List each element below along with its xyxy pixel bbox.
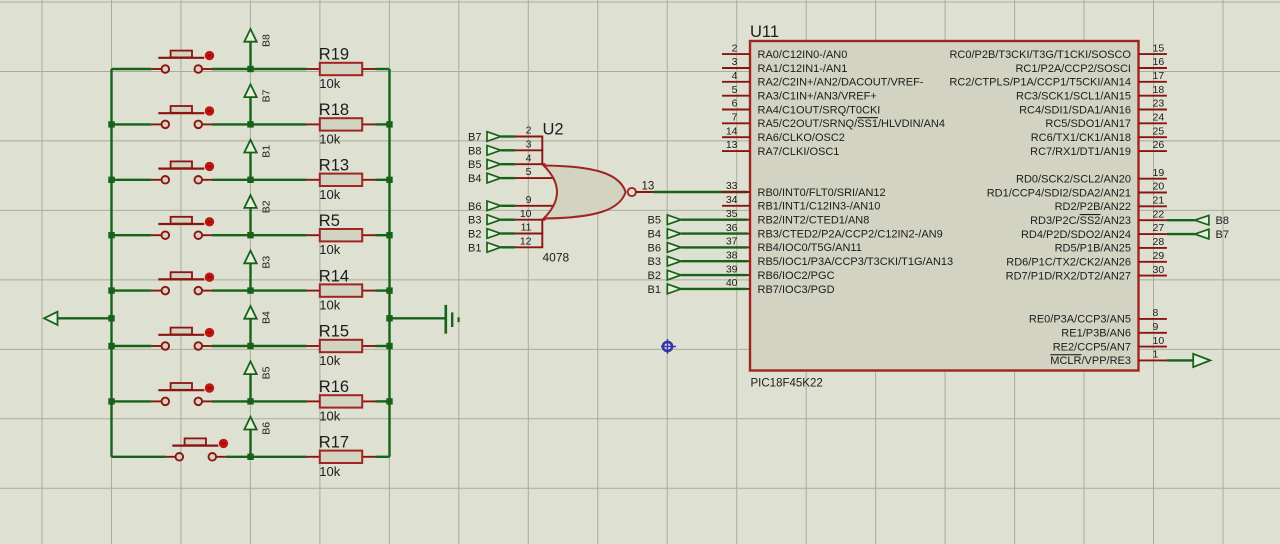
svg-text:RD3/P2C/SS2/AN23: RD3/P2C/SS2/AN23 bbox=[1030, 215, 1131, 227]
net label arrow B6 bbox=[244, 417, 272, 457]
wire B2 to U11 bbox=[681, 274, 747, 276]
wire to U2 pin 9 bbox=[501, 205, 515, 207]
svg-text:17: 17 bbox=[1153, 70, 1165, 82]
junction right bus row 6 bbox=[386, 343, 392, 349]
junction row 2 net stem bbox=[247, 121, 253, 127]
svg-text:33: 33 bbox=[726, 180, 738, 192]
svg-text:RB2/INT2/CTED1/AN8: RB2/INT2/CTED1/AN8 bbox=[758, 215, 870, 227]
svg-text:18: 18 bbox=[1153, 84, 1165, 96]
wire row 5 right segment bbox=[376, 289, 390, 291]
U11 pin 37 (left) bbox=[722, 236, 862, 255]
svg-text:1: 1 bbox=[1153, 349, 1159, 361]
svg-text:R18: R18 bbox=[319, 101, 349, 119]
wire row 8 left segment bbox=[112, 456, 166, 458]
button SW row 8 terminals bbox=[176, 453, 184, 461]
U11 pin 19 (right) bbox=[1016, 167, 1167, 186]
U11 pin 27 (right) bbox=[1021, 222, 1167, 241]
svg-text:B3: B3 bbox=[648, 256, 661, 268]
svg-text:10: 10 bbox=[1153, 335, 1165, 347]
button SW row 6 terminals bbox=[162, 342, 170, 350]
svg-text:2: 2 bbox=[732, 42, 738, 54]
wire row 3 left segment bbox=[112, 179, 152, 181]
U11 pin 8 (right) bbox=[1029, 307, 1167, 326]
svg-text:RA2/C2IN+/AN2/DACOUT/VREF-: RA2/C2IN+/AN2/DACOUT/VREF- bbox=[758, 77, 924, 89]
U2 pin 3 bbox=[515, 149, 543, 151]
svg-text:RD5/P1B/AN25: RD5/P1B/AN25 bbox=[1055, 243, 1131, 255]
svg-text:16: 16 bbox=[1153, 56, 1165, 68]
net label arrow B5 (to U11) bbox=[648, 215, 681, 227]
wire right bus vertical bbox=[388, 69, 390, 457]
svg-text:R16: R16 bbox=[319, 378, 349, 396]
button SW row 7 (pins) bbox=[152, 400, 162, 402]
svg-text:RB4/IOC0/T5G/AN11: RB4/IOC0/T5G/AN11 bbox=[758, 242, 862, 254]
svg-text:B4: B4 bbox=[468, 173, 481, 185]
wire row 6 left segment bbox=[112, 345, 152, 347]
button SW row 8 (pins) bbox=[166, 456, 176, 458]
button SW row 4 (pins) bbox=[152, 234, 162, 236]
button SW row 8 interactive red dot bbox=[219, 439, 228, 448]
junction row 6 net stem bbox=[247, 343, 253, 349]
svg-text:22: 22 bbox=[1153, 208, 1165, 220]
button SW row 4 terminals bbox=[162, 231, 170, 239]
button SW row 2 interactive red dot bbox=[205, 106, 214, 115]
svg-text:RD6/P1C/TX2/CK2/AN26: RD6/P1C/TX2/CK2/AN26 bbox=[1006, 257, 1131, 269]
svg-text:B3: B3 bbox=[261, 256, 273, 269]
net label arrow B7 (from U11) bbox=[1195, 229, 1229, 241]
button SW row 6 interactive red dot bbox=[205, 328, 214, 337]
terminal output arrow (MCLR) bbox=[1193, 354, 1210, 367]
svg-text:9: 9 bbox=[526, 194, 532, 206]
U11 pin 21 (right) bbox=[1055, 195, 1167, 214]
U11 pin 4 (left) bbox=[722, 70, 924, 89]
wire B4 to U11 bbox=[681, 232, 747, 234]
svg-text:28: 28 bbox=[1153, 236, 1165, 248]
svg-text:RC0/P2B/T3CKI/T3G/T1CKI/SOSCO: RC0/P2B/T3CKI/T3G/T1CKI/SOSCO bbox=[949, 49, 1131, 61]
junction row 1 net stem bbox=[247, 66, 253, 72]
junction left bus / arrow wire bbox=[108, 315, 114, 321]
svg-text:3: 3 bbox=[526, 139, 532, 151]
svg-text:37: 37 bbox=[726, 236, 738, 248]
junction right bus row 4 bbox=[386, 232, 392, 238]
wire row 1 right segment bbox=[376, 68, 390, 70]
U11 pin 14 (left) bbox=[722, 125, 845, 144]
resistor R18 bbox=[307, 101, 376, 146]
button SW row 1 actuator bbox=[158, 57, 204, 59]
U11 pin 30 (right) bbox=[1006, 264, 1167, 283]
svg-text:RC5/SDO1/AN17: RC5/SDO1/AN17 bbox=[1045, 118, 1131, 130]
svg-text:13: 13 bbox=[642, 180, 655, 192]
svg-text:RE1/P3B/AN6: RE1/P3B/AN6 bbox=[1061, 328, 1131, 340]
junction row 4 net stem bbox=[247, 232, 253, 238]
junction left bus row 2 bbox=[108, 121, 114, 127]
junction right bus row 2 bbox=[386, 121, 392, 127]
svg-text:RB1/INT1/C12IN3-/AN10: RB1/INT1/C12IN3-/AN10 bbox=[758, 201, 881, 213]
svg-text:RD0/SCK2/SCL2/AN20: RD0/SCK2/SCL2/AN20 bbox=[1016, 174, 1131, 186]
svg-text:10k: 10k bbox=[319, 464, 340, 479]
resistor R13 bbox=[307, 157, 376, 202]
net label arrow B2 bbox=[244, 195, 272, 235]
svg-text:RA7/CLKI/OSC1: RA7/CLKI/OSC1 bbox=[758, 146, 840, 158]
svg-text:7: 7 bbox=[732, 112, 738, 124]
svg-text:B2: B2 bbox=[468, 229, 481, 241]
wire row 4 middle segment bbox=[212, 234, 307, 236]
wire U11 to B8 bbox=[1167, 219, 1195, 221]
svg-text:4078: 4078 bbox=[543, 251, 570, 265]
svg-text:14: 14 bbox=[726, 125, 738, 137]
svg-text:39: 39 bbox=[726, 263, 738, 275]
svg-text:RC4/SDI1/SDA1/AN16: RC4/SDI1/SDA1/AN16 bbox=[1019, 104, 1131, 116]
wire row 3 right segment bbox=[376, 179, 390, 181]
svg-text:19: 19 bbox=[1153, 167, 1165, 179]
net label arrow B8 (U2 pin 3 input) bbox=[468, 145, 501, 157]
svg-text:RE0/P3A/CCP3/AN5: RE0/P3A/CCP3/AN5 bbox=[1029, 314, 1131, 326]
wire to U2 pin 10 bbox=[501, 218, 515, 220]
svg-text:10k: 10k bbox=[319, 76, 340, 91]
button SW row 8 actuator bbox=[172, 445, 218, 447]
button SW row 1 interactive red dot bbox=[205, 51, 214, 60]
svg-text:8: 8 bbox=[1153, 307, 1159, 319]
junction right bus row 3 bbox=[386, 177, 392, 183]
junction row 5 net stem bbox=[247, 287, 253, 293]
op-amp U2 gate body (4078 NOR) bbox=[544, 166, 626, 219]
junction left bus row 4 bbox=[108, 232, 114, 238]
net label arrow B5 (U2 pin 4 input) bbox=[468, 159, 501, 171]
svg-text:36: 36 bbox=[726, 222, 738, 234]
svg-text:B1: B1 bbox=[261, 145, 273, 158]
svg-text:R19: R19 bbox=[319, 46, 349, 64]
wire B1 to U11 bbox=[681, 288, 747, 290]
svg-text:B5: B5 bbox=[261, 366, 273, 379]
svg-text:PIC18F45K22: PIC18F45K22 bbox=[751, 378, 823, 390]
net label arrow B7 (U2 pin 2 input) bbox=[468, 132, 501, 144]
svg-text:10k: 10k bbox=[319, 298, 340, 313]
U11 pin 34 (left) bbox=[722, 194, 880, 213]
U2 pin 9 bbox=[515, 205, 556, 207]
junction right bus row 5 bbox=[386, 287, 392, 293]
svg-text:RD7/P1D/RX2/DT2/AN27: RD7/P1D/RX2/DT2/AN27 bbox=[1006, 270, 1131, 282]
svg-text:RC2/CTPLS/P1A/CCP1/T5CKI/AN14: RC2/CTPLS/P1A/CCP1/T5CKI/AN14 bbox=[949, 77, 1131, 89]
svg-text:MCLR/VPP/RE3: MCLR/VPP/RE3 bbox=[1050, 355, 1131, 367]
U11 pin 18 (right) bbox=[1016, 84, 1167, 103]
U2 output pin 13 bbox=[636, 191, 654, 193]
svg-text:U11: U11 bbox=[750, 23, 779, 41]
button SW row 5 (pins) bbox=[152, 290, 162, 292]
svg-text:B2: B2 bbox=[648, 270, 661, 282]
wire to ground bbox=[390, 317, 447, 319]
junction left bus row 6 bbox=[108, 343, 114, 349]
IC U11 body bbox=[750, 41, 1139, 371]
net label arrow B2 (U2 pin 11 input) bbox=[468, 229, 501, 241]
net label arrow B1 bbox=[244, 140, 272, 180]
U2 pin 10 bbox=[515, 219, 546, 221]
net label arrow B6 (to U11) bbox=[648, 242, 681, 254]
button SW row 4 actuator bbox=[158, 223, 204, 225]
U11 pin 7 (left) bbox=[722, 112, 945, 131]
wire row 5 middle segment bbox=[212, 289, 307, 291]
junction left bus row 3 bbox=[108, 177, 114, 183]
svg-text:RA0/C12IN0-/AN0: RA0/C12IN0-/AN0 bbox=[758, 49, 848, 61]
wire row 7 middle segment bbox=[212, 400, 307, 402]
U11 pin 25 (right) bbox=[1031, 125, 1167, 144]
resistor R14 bbox=[307, 267, 376, 312]
svg-text:10k: 10k bbox=[319, 131, 340, 146]
button SW row 4 interactive red dot bbox=[205, 217, 214, 226]
net label arrow B2 (to U11) bbox=[648, 270, 681, 282]
svg-text:4: 4 bbox=[732, 70, 738, 82]
svg-text:6: 6 bbox=[732, 98, 738, 110]
U11 pin 13 (left) bbox=[722, 139, 839, 158]
U11 pin 15 (right) bbox=[949, 42, 1166, 61]
svg-text:40: 40 bbox=[726, 277, 738, 289]
U2 pins 2-4 routing vertical bbox=[541, 137, 543, 165]
svg-text:B8: B8 bbox=[468, 145, 481, 157]
U11 pin 22 (right) bbox=[1030, 208, 1167, 227]
resistor R17 bbox=[307, 434, 376, 479]
net label arrow B8 (from U11) bbox=[1195, 215, 1229, 227]
junction row 7 net stem bbox=[247, 398, 253, 404]
svg-text:B2: B2 bbox=[261, 200, 273, 213]
svg-text:RA6/CLKO/OSC2: RA6/CLKO/OSC2 bbox=[758, 132, 845, 144]
wire row 2 left segment bbox=[112, 123, 152, 125]
svg-text:RA4/C1OUT/SRQ/T0CKI: RA4/C1OUT/SRQ/T0CKI bbox=[758, 104, 881, 116]
net label arrow B1 (U2 pin 12 input) bbox=[468, 242, 501, 254]
resistor R15 bbox=[307, 323, 376, 368]
button SW row 7 interactive red dot bbox=[205, 383, 214, 392]
wire row 6 right segment bbox=[376, 345, 390, 347]
U11 pin 39 (left) bbox=[722, 263, 835, 282]
svg-text:23: 23 bbox=[1153, 98, 1165, 110]
U2 pin 5 bbox=[515, 177, 556, 179]
svg-text:10k: 10k bbox=[319, 353, 340, 368]
U11 pin 5 (left) bbox=[722, 84, 877, 103]
svg-text:35: 35 bbox=[726, 208, 738, 220]
svg-text:RC6/TX1/CK1/AN18: RC6/TX1/CK1/AN18 bbox=[1031, 132, 1131, 144]
svg-text:5: 5 bbox=[732, 84, 738, 96]
net label arrow B4 bbox=[244, 306, 272, 346]
wire to U2 pin 5 bbox=[501, 177, 515, 179]
button SW row 3 actuator bbox=[158, 168, 204, 170]
svg-text:RD1/CCP4/SDI2/SDA2/AN21: RD1/CCP4/SDI2/SDA2/AN21 bbox=[987, 187, 1131, 199]
svg-text:10k: 10k bbox=[319, 408, 340, 423]
wire B5 to U11 bbox=[681, 218, 747, 220]
U11 pin 35 (left) bbox=[722, 208, 869, 227]
U11 pin 36 (left) bbox=[722, 222, 943, 241]
U11 pin 16 (right) bbox=[1015, 56, 1166, 75]
U11 pin 20 (right) bbox=[987, 181, 1167, 200]
svg-text:24: 24 bbox=[1153, 112, 1165, 124]
junction right bus row 7 bbox=[386, 398, 392, 404]
U11 pin 33 (left) bbox=[722, 180, 886, 199]
ground symbol bbox=[446, 305, 459, 334]
net label arrow B3 bbox=[244, 251, 272, 291]
wire B3 to U11 bbox=[681, 260, 747, 262]
net label arrow B3 (to U11) bbox=[648, 256, 681, 268]
svg-text:38: 38 bbox=[726, 249, 738, 261]
wire row 8 middle segment bbox=[226, 456, 307, 458]
net label arrow B3 (U2 pin 10 input) bbox=[468, 215, 501, 227]
svg-text:RE2/CCP5/AN7: RE2/CCP5/AN7 bbox=[1053, 341, 1131, 353]
svg-text:RA5/C2OUT/SRNQ/SS1/HLVDIN/AN4: RA5/C2OUT/SRNQ/SS1/HLVDIN/AN4 bbox=[758, 118, 945, 130]
button SW row 5 terminals bbox=[162, 287, 170, 295]
svg-text:B3: B3 bbox=[468, 215, 481, 227]
svg-text:29: 29 bbox=[1153, 250, 1165, 262]
svg-text:13: 13 bbox=[726, 139, 738, 151]
svg-text:B7: B7 bbox=[261, 89, 273, 102]
svg-text:B5: B5 bbox=[468, 159, 481, 171]
U2 pin 12 bbox=[515, 246, 543, 248]
svg-text:12: 12 bbox=[520, 236, 532, 248]
wire row 1 middle segment bbox=[212, 68, 307, 70]
wire row 8 right segment bbox=[376, 456, 390, 458]
button SW row 3 terminals bbox=[162, 176, 170, 184]
svg-text:RB5/IOC1/P3A/CCP3/T3CKI/T1G/AN: RB5/IOC1/P3A/CCP3/T3CKI/T1G/AN13 bbox=[758, 256, 954, 268]
wire row 7 right segment bbox=[376, 400, 390, 402]
U11 pin 10 (right) bbox=[1053, 335, 1167, 354]
svg-text:R17: R17 bbox=[319, 434, 349, 452]
wire to U2 pin 12 bbox=[501, 246, 515, 248]
svg-text:3: 3 bbox=[732, 56, 738, 68]
svg-text:B4: B4 bbox=[261, 311, 273, 324]
svg-text:34: 34 bbox=[726, 194, 738, 206]
button SW row 5 actuator bbox=[158, 278, 204, 280]
U11 pin 17 (right) bbox=[949, 70, 1166, 89]
svg-text:4: 4 bbox=[526, 152, 532, 164]
svg-text:11: 11 bbox=[521, 222, 532, 234]
svg-text:RA1/C12IN1-/AN1: RA1/C12IN1-/AN1 bbox=[758, 63, 848, 75]
button SW row 3 (pins) bbox=[152, 179, 162, 181]
svg-text:25: 25 bbox=[1153, 125, 1165, 137]
svg-text:B4: B4 bbox=[648, 229, 661, 241]
svg-text:B7: B7 bbox=[1216, 229, 1229, 241]
svg-text:RB0/INT0/FLT0/SRI/AN12: RB0/INT0/FLT0/SRI/AN12 bbox=[758, 187, 886, 199]
net label arrow B8 bbox=[244, 29, 272, 69]
button SW row 6 (pins) bbox=[152, 345, 162, 347]
net label arrow B1 (to U11) bbox=[648, 284, 681, 296]
U2 pin 11 bbox=[515, 233, 543, 235]
svg-text:2: 2 bbox=[526, 125, 532, 137]
U11 pin 2 (left) bbox=[722, 42, 847, 61]
svg-text:B8: B8 bbox=[261, 34, 273, 47]
svg-text:R15: R15 bbox=[319, 323, 349, 341]
svg-text:B7: B7 bbox=[468, 132, 481, 144]
button SW row 2 (pins) bbox=[152, 123, 162, 125]
svg-text:B6: B6 bbox=[648, 242, 661, 254]
svg-text:RA3/C1IN+/AN3/VREF+: RA3/C1IN+/AN3/VREF+ bbox=[758, 91, 877, 103]
svg-text:27: 27 bbox=[1153, 222, 1165, 234]
U11 pin 38 (left) bbox=[722, 249, 953, 268]
U11 pin 6 (left) bbox=[722, 98, 880, 117]
U11 pin 24 (right) bbox=[1045, 112, 1166, 131]
svg-text:B6: B6 bbox=[261, 422, 273, 435]
svg-text:R13: R13 bbox=[319, 157, 349, 175]
button SW row 7 actuator bbox=[158, 389, 204, 391]
wire to U2 pin 4 bbox=[501, 163, 515, 165]
origin marker (blue crosshair) bbox=[661, 339, 676, 354]
U11 pin 28 (right) bbox=[1055, 236, 1167, 255]
button SW row 7 terminals bbox=[162, 398, 170, 406]
svg-text:5: 5 bbox=[526, 166, 532, 178]
svg-text:26: 26 bbox=[1153, 139, 1165, 151]
svg-text:RC3/SCK1/SCL1/AN15: RC3/SCK1/SCL1/AN15 bbox=[1016, 91, 1131, 103]
U11 pin 40 (left) bbox=[722, 277, 835, 296]
svg-text:RC7/RX1/DT1/AN19: RC7/RX1/DT1/AN19 bbox=[1030, 146, 1131, 158]
svg-text:15: 15 bbox=[1153, 42, 1165, 54]
svg-text:B1: B1 bbox=[648, 284, 661, 296]
svg-text:U2: U2 bbox=[543, 121, 564, 139]
button SW row 2 actuator bbox=[158, 112, 204, 114]
svg-text:30: 30 bbox=[1153, 264, 1165, 276]
junction right bus / ground wire bbox=[386, 315, 392, 321]
U11 pin 3 (left) bbox=[722, 56, 847, 75]
svg-text:RB6/IOC2/PGC: RB6/IOC2/PGC bbox=[758, 270, 835, 282]
wire row 4 right segment bbox=[376, 234, 390, 236]
U11 pin 9 (right) bbox=[1061, 321, 1167, 340]
wire row 5 left segment bbox=[112, 289, 152, 291]
wire B6 to U11 bbox=[681, 246, 747, 248]
svg-text:9: 9 bbox=[1153, 321, 1159, 333]
svg-text:20: 20 bbox=[1153, 181, 1165, 193]
svg-text:RD4/P2D/SDO2/AN24: RD4/P2D/SDO2/AN24 bbox=[1021, 229, 1131, 241]
svg-text:B1: B1 bbox=[468, 242, 481, 254]
svg-text:RB7/IOC3/PGD: RB7/IOC3/PGD bbox=[758, 284, 835, 296]
wire row 6 middle segment bbox=[212, 345, 307, 347]
svg-text:10k: 10k bbox=[319, 242, 340, 257]
U11 pin 23 (right) bbox=[1019, 98, 1167, 117]
junction left bus row 5 bbox=[108, 287, 114, 293]
button SW row 1 terminals bbox=[162, 65, 170, 73]
resistor R16 bbox=[307, 378, 376, 423]
U11 pin 1 (right) bbox=[1050, 349, 1167, 368]
wire row 3 middle segment bbox=[212, 179, 307, 181]
svg-text:R5: R5 bbox=[319, 212, 340, 230]
wire U2 output to U11 pin 33 bbox=[654, 191, 747, 193]
svg-text:RC1/P2A/CCP2/SOSCI: RC1/P2A/CCP2/SOSCI bbox=[1015, 63, 1131, 75]
wire to U2 pin 3 bbox=[501, 149, 515, 151]
svg-text:RB3/CTED2/P2A/CCP2/C12IN2-/AN9: RB3/CTED2/P2A/CCP2/C12IN2-/AN9 bbox=[758, 228, 943, 240]
net label arrow B6 (U2 pin 9 input) bbox=[468, 201, 501, 213]
resistor R19 bbox=[307, 46, 376, 91]
net label arrow B4 (to U11) bbox=[648, 229, 681, 241]
junction row 3 net stem bbox=[247, 177, 253, 183]
wire U11 to B7 bbox=[1167, 233, 1195, 235]
U11 pin 29 (right) bbox=[1006, 250, 1167, 269]
resistor R5 bbox=[307, 212, 376, 257]
net label arrow B7 bbox=[244, 84, 272, 124]
svg-text:10k: 10k bbox=[319, 187, 340, 202]
net label arrow B5 bbox=[244, 361, 272, 401]
U11 pin 26 (right) bbox=[1030, 139, 1167, 158]
button SW row 2 terminals bbox=[162, 121, 170, 129]
wire to U2 pin 11 bbox=[501, 232, 515, 234]
button SW row 1 (pins) bbox=[152, 68, 162, 70]
net label arrow B4 (U2 pin 5 input) bbox=[468, 173, 501, 185]
button SW row 3 interactive red dot bbox=[205, 162, 214, 171]
wire row 7 left segment bbox=[112, 400, 152, 402]
svg-text:B8: B8 bbox=[1216, 215, 1229, 227]
wire left bus vertical bbox=[110, 69, 112, 457]
svg-text:10: 10 bbox=[520, 208, 532, 220]
svg-text:B6: B6 bbox=[468, 201, 481, 213]
U2 output bubble bbox=[628, 188, 636, 196]
svg-text:B5: B5 bbox=[648, 215, 661, 227]
svg-text:RD2/P2B/AN22: RD2/P2B/AN22 bbox=[1055, 201, 1131, 213]
svg-text:21: 21 bbox=[1153, 195, 1165, 207]
wire U11 MCLR to terminal bbox=[1167, 359, 1193, 361]
wire to U2 pin 2 bbox=[501, 135, 515, 137]
U2 pins 10-12 routing vertical bbox=[541, 220, 543, 248]
wire row 2 middle segment bbox=[212, 123, 307, 125]
U2 pin 2 bbox=[515, 136, 543, 138]
